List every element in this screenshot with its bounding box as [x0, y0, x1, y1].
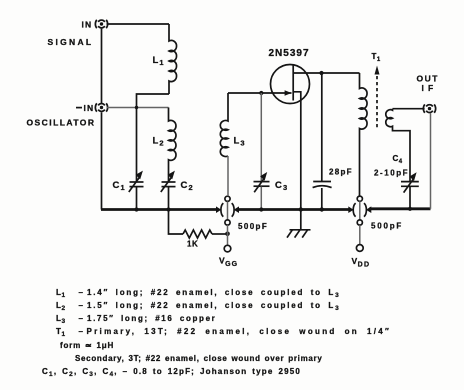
wire resistor to VGG lead: [212, 233, 228, 235]
svg-text:–: –: [79, 314, 84, 323]
feedthrough capacitor 500pF (right): [348, 196, 371, 225]
wire between IN connectors: [101, 29, 103, 103]
wire oscillator to L2 top: [107, 107, 169, 109]
terminal VDD: [356, 245, 363, 252]
inductor L3: [220, 93, 228, 157]
notes text block: [42, 288, 391, 378]
svg-text:1.75″ long; #16 copper: 1.75″ long; #16 copper: [87, 314, 216, 323]
svg-text:OUT: OUT: [417, 74, 439, 84]
svg-text:2N5397: 2N5397: [269, 48, 310, 59]
svg-text:–: –: [79, 327, 84, 336]
connector J2 IN OSCILLATOR: [95, 103, 107, 111]
svg-text:–: –: [79, 301, 84, 310]
svg-text:IN: IN: [84, 103, 95, 113]
wire secondary to OUT connector: [393, 108, 425, 110]
connector J3 OUT IF: [423, 104, 435, 112]
capacitor C2 (variable): [161, 171, 176, 210]
svg-text:500pF: 500pF: [371, 222, 403, 231]
wire L3 to feedthrough: [227, 156, 229, 196]
wire L1 bottom to C1: [137, 94, 170, 181]
svg-text:–: –: [79, 288, 84, 297]
transformer T1 secondary: [386, 109, 410, 182]
wire gate line: [228, 92, 292, 94]
resistor R1 1K: [183, 230, 212, 238]
svg-text:SIGNAL: SIGNAL: [48, 37, 94, 47]
ground bus middle segment: [237, 208, 350, 211]
wire feedthrough to VDD: [359, 225, 361, 245]
svg-text:1K: 1K: [187, 240, 198, 249]
svg-text:28pF: 28pF: [329, 168, 353, 177]
junction 28pF/bus: [320, 207, 324, 211]
wire oscillator connector down to ground bus: [101, 112, 103, 209]
svg-text:OSCILLATOR: OSCILLATOR: [27, 118, 96, 128]
transistor Q1 2N5397: [271, 65, 360, 210]
inductor L1: [169, 24, 177, 94]
terminal VGG: [224, 245, 231, 252]
capacitor 28pF: [313, 73, 332, 210]
junction L1/oscillator: [135, 106, 138, 109]
svg-text:form ≃ 1μH: form ≃ 1μH: [60, 341, 114, 350]
junction C2/bus: [166, 207, 170, 211]
capacitor C1 (variable): [129, 171, 144, 210]
wire OUT connector down to bus: [430, 113, 432, 209]
wire feedthrough to VGG: [227, 225, 229, 245]
junction C4/bus: [408, 207, 412, 211]
junction resistor/VGG wire: [225, 232, 230, 237]
svg-text:IF: IF: [422, 83, 438, 93]
connector J1 IN SIGNAL: [95, 20, 107, 28]
capacitor C3 (variable): [254, 93, 270, 210]
svg-text:Primary, 13T; #22 enamel, clos: Primary, 13T; #22 enamel, close wound on…: [87, 327, 392, 336]
ground bus right segment: [369, 207, 430, 210]
capacitor C4 (variable): [401, 172, 419, 209]
chassis ground: [287, 210, 311, 238]
T1 tuning arrow (dashed core): [375, 66, 380, 131]
junction drain/28pF: [319, 71, 323, 75]
junction C3/bus: [259, 207, 263, 211]
transformer T1 primary: [360, 73, 368, 196]
junction source/bus: [299, 207, 303, 211]
junction gate/C3: [259, 91, 263, 95]
junction C1/bus: [134, 207, 138, 211]
svg-text:Secondary, 3T; #22 enamel, clo: Secondary, 3T; #22 enamel, close wound o…: [75, 354, 323, 363]
feedthrough capacitor 500pF (left): [216, 196, 239, 225]
svg-text:500pF: 500pF: [238, 222, 268, 231]
inductor L2: [169, 108, 176, 182]
wire signal input to L1 top: [107, 23, 170, 25]
wire C2 junction down to resistor: [169, 210, 184, 235]
svg-text:IN: IN: [82, 19, 93, 29]
svg-text:2-10pF: 2-10pF: [374, 169, 409, 178]
ground bus left segment: [101, 208, 218, 211]
